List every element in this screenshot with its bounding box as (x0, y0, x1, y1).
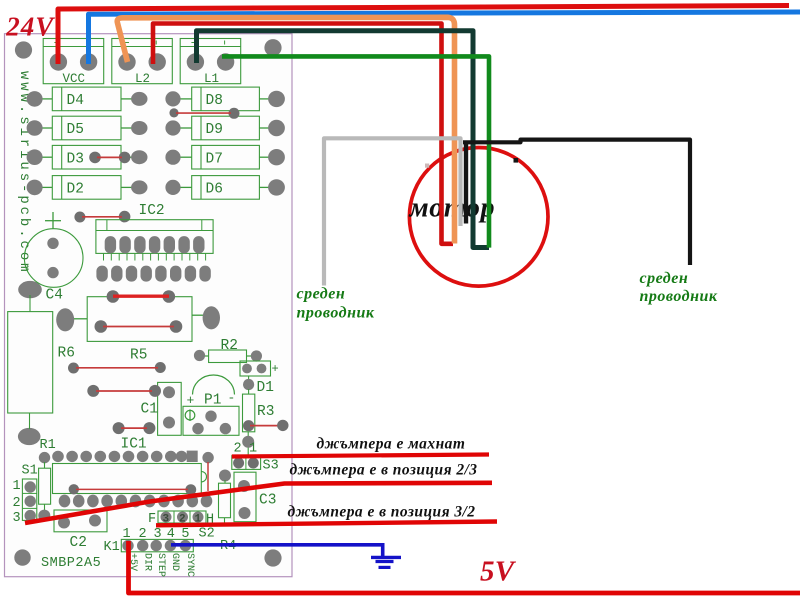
svg-text:IC2: IC2 (139, 203, 165, 219)
wire red 5V from K1 pin 1 to bottom right edge (129, 541, 800, 593)
svg-text:5V: 5V (480, 556, 517, 588)
trace row 3 with via pads (113, 422, 156, 434)
mounting pad bottom-left (14, 549, 30, 565)
svg-text:R2: R2 (221, 338, 238, 354)
trace row 1 with via pads (68, 362, 166, 374)
svg-text:джъмпера е в позиция 3/2: джъмпера е в позиция 3/2 (288, 504, 476, 521)
diode D2 (27, 176, 148, 200)
svg-text:C2: C2 (70, 535, 87, 551)
svg-text:3: 3 (13, 511, 21, 526)
capacitor C1 (141, 382, 182, 435)
svg-text:VCC: VCC (63, 72, 86, 86)
svg-text:R3: R3 (257, 404, 274, 420)
svg-text:SMBP2A5: SMBP2A5 (41, 556, 101, 571)
motor terminal tick left (425, 164, 429, 168)
svg-text:C4: C4 (46, 288, 63, 304)
svg-text:C3: C3 (259, 493, 276, 509)
wire dark red from L2 pin 2 to motor (153, 24, 453, 244)
svg-text:SYNC: SYNC (184, 553, 195, 577)
jumper wire position 3/2 (red line 3) (156, 522, 497, 526)
IC2 body (96, 220, 213, 254)
trace above IC2 with via pads (74, 211, 130, 223)
diode D7 (165, 145, 285, 169)
connector L1 (180, 39, 241, 87)
diode D6 (165, 176, 285, 200)
connector S1 (13, 464, 38, 527)
diode D9 (165, 116, 285, 140)
svg-text:среден: среден (297, 286, 346, 303)
PCB board outline SMBP2A5 (5, 34, 293, 577)
svg-text:D7: D7 (206, 151, 223, 167)
svg-text:S2: S2 (199, 527, 215, 542)
mounting pad top-right (264, 39, 281, 56)
capacitor C2 (54, 510, 107, 551)
diode D3 (27, 145, 148, 169)
trace at D3 with via pads (89, 152, 130, 164)
svg-text:D5: D5 (67, 122, 84, 138)
IC2 lower pad row (96, 266, 210, 282)
svg-text:D1: D1 (257, 380, 274, 396)
motor circle (409, 148, 548, 287)
svg-text:F: F (148, 512, 156, 527)
svg-text:+: + (272, 362, 279, 376)
svg-text:1: 1 (13, 479, 21, 494)
svg-text:-: - (228, 391, 236, 406)
capacitor C4 (24, 212, 83, 304)
svg-text:STEP: STEP (155, 553, 166, 577)
wire blue from VCC pin 2 to top right edge (89, 12, 800, 64)
mounting pad top-left (15, 41, 32, 58)
resistor R1 (38, 452, 50, 522)
jumper wire position 2/3 (red line 2) (25, 483, 492, 523)
wire blue GND from K1 pin 4 (171, 545, 383, 557)
mounting pad left-mid C4 (18, 281, 42, 298)
svg-text:проводник: проводник (640, 288, 718, 305)
trace D8-D9 with via pads (169, 108, 239, 119)
ground symbol (371, 557, 401, 567)
trace inside IC1 (69, 462, 208, 495)
IC1 top pad row (52, 451, 214, 464)
svg-text:R6: R6 (58, 346, 75, 362)
potentiometer P1 (183, 375, 239, 435)
svg-text:проводник: проводник (297, 305, 375, 322)
IC1 bottom pad row (59, 495, 213, 508)
svg-text:джъмпера е махнат: джъмпера е махнат (317, 436, 466, 453)
motor terminal tick (514, 158, 519, 163)
wire black stub into motor (464, 142, 468, 223)
connector L2 (112, 39, 173, 87)
trace row 2 with via pads (87, 385, 161, 397)
IC1 body (53, 464, 207, 494)
connector K1 (104, 527, 196, 577)
diode D1 (240, 361, 279, 396)
connector VCC (43, 39, 103, 87)
mounting pad bottom-right (264, 549, 281, 566)
svg-text:L2: L2 (135, 72, 150, 86)
svg-text:D3: D3 (67, 151, 84, 167)
resistor R3 (242, 389, 288, 456)
IC2 pins (104, 253, 206, 260)
svg-text:R5: R5 (130, 348, 147, 364)
svg-text:D8: D8 (206, 93, 223, 109)
wire gray middle conductor (324, 138, 461, 285)
resistor R2 (194, 338, 262, 363)
svg-text:D4: D4 (67, 93, 84, 109)
svg-text:R1: R1 (40, 438, 56, 453)
connector S3 (232, 442, 279, 474)
svg-text:S3: S3 (263, 459, 279, 474)
wire dark teal from L1 pin 1 to motor (197, 31, 490, 248)
wire black middle conductor (463, 140, 690, 265)
resistor R4 (219, 470, 237, 555)
resistor R5 (56, 290, 220, 363)
wire orange from L2 pin 1 to motor (117, 17, 454, 243)
svg-text:D2: D2 (67, 182, 84, 198)
mounting pad left R6 bottom (18, 428, 41, 445)
svg-text:2: 2 (234, 442, 242, 457)
diode D5 (27, 116, 148, 140)
capacitor C3 (234, 472, 276, 522)
svg-text:IC1: IC1 (121, 437, 147, 453)
svg-text:DIR: DIR (142, 553, 153, 571)
svg-text:C1: C1 (141, 402, 158, 418)
resistor R6 (8, 295, 75, 429)
svg-text:2: 2 (13, 496, 21, 511)
svg-text:K1: K1 (104, 540, 120, 555)
svg-text:джъмпера е в позиция 2/3: джъмпера е в позиция 2/3 (290, 462, 478, 479)
diode D8 (165, 87, 285, 111)
svg-text:GND: GND (169, 553, 180, 571)
svg-text:D6: D6 (206, 182, 223, 198)
wire red 24V from VCC pin 1 to top right (58, 6, 789, 65)
svg-text:D9: D9 (206, 122, 223, 138)
svg-text:24V: 24V (5, 11, 55, 41)
wire green from L1 pin 2 to motor (222, 56, 489, 247)
svg-text:L1: L1 (204, 72, 219, 86)
svg-text:среден: среден (640, 270, 689, 287)
svg-text:S1: S1 (22, 464, 38, 479)
jumper wire removed (red line 1) (232, 455, 489, 457)
jumper block S2 (148, 511, 215, 542)
diode D4 (27, 87, 148, 111)
